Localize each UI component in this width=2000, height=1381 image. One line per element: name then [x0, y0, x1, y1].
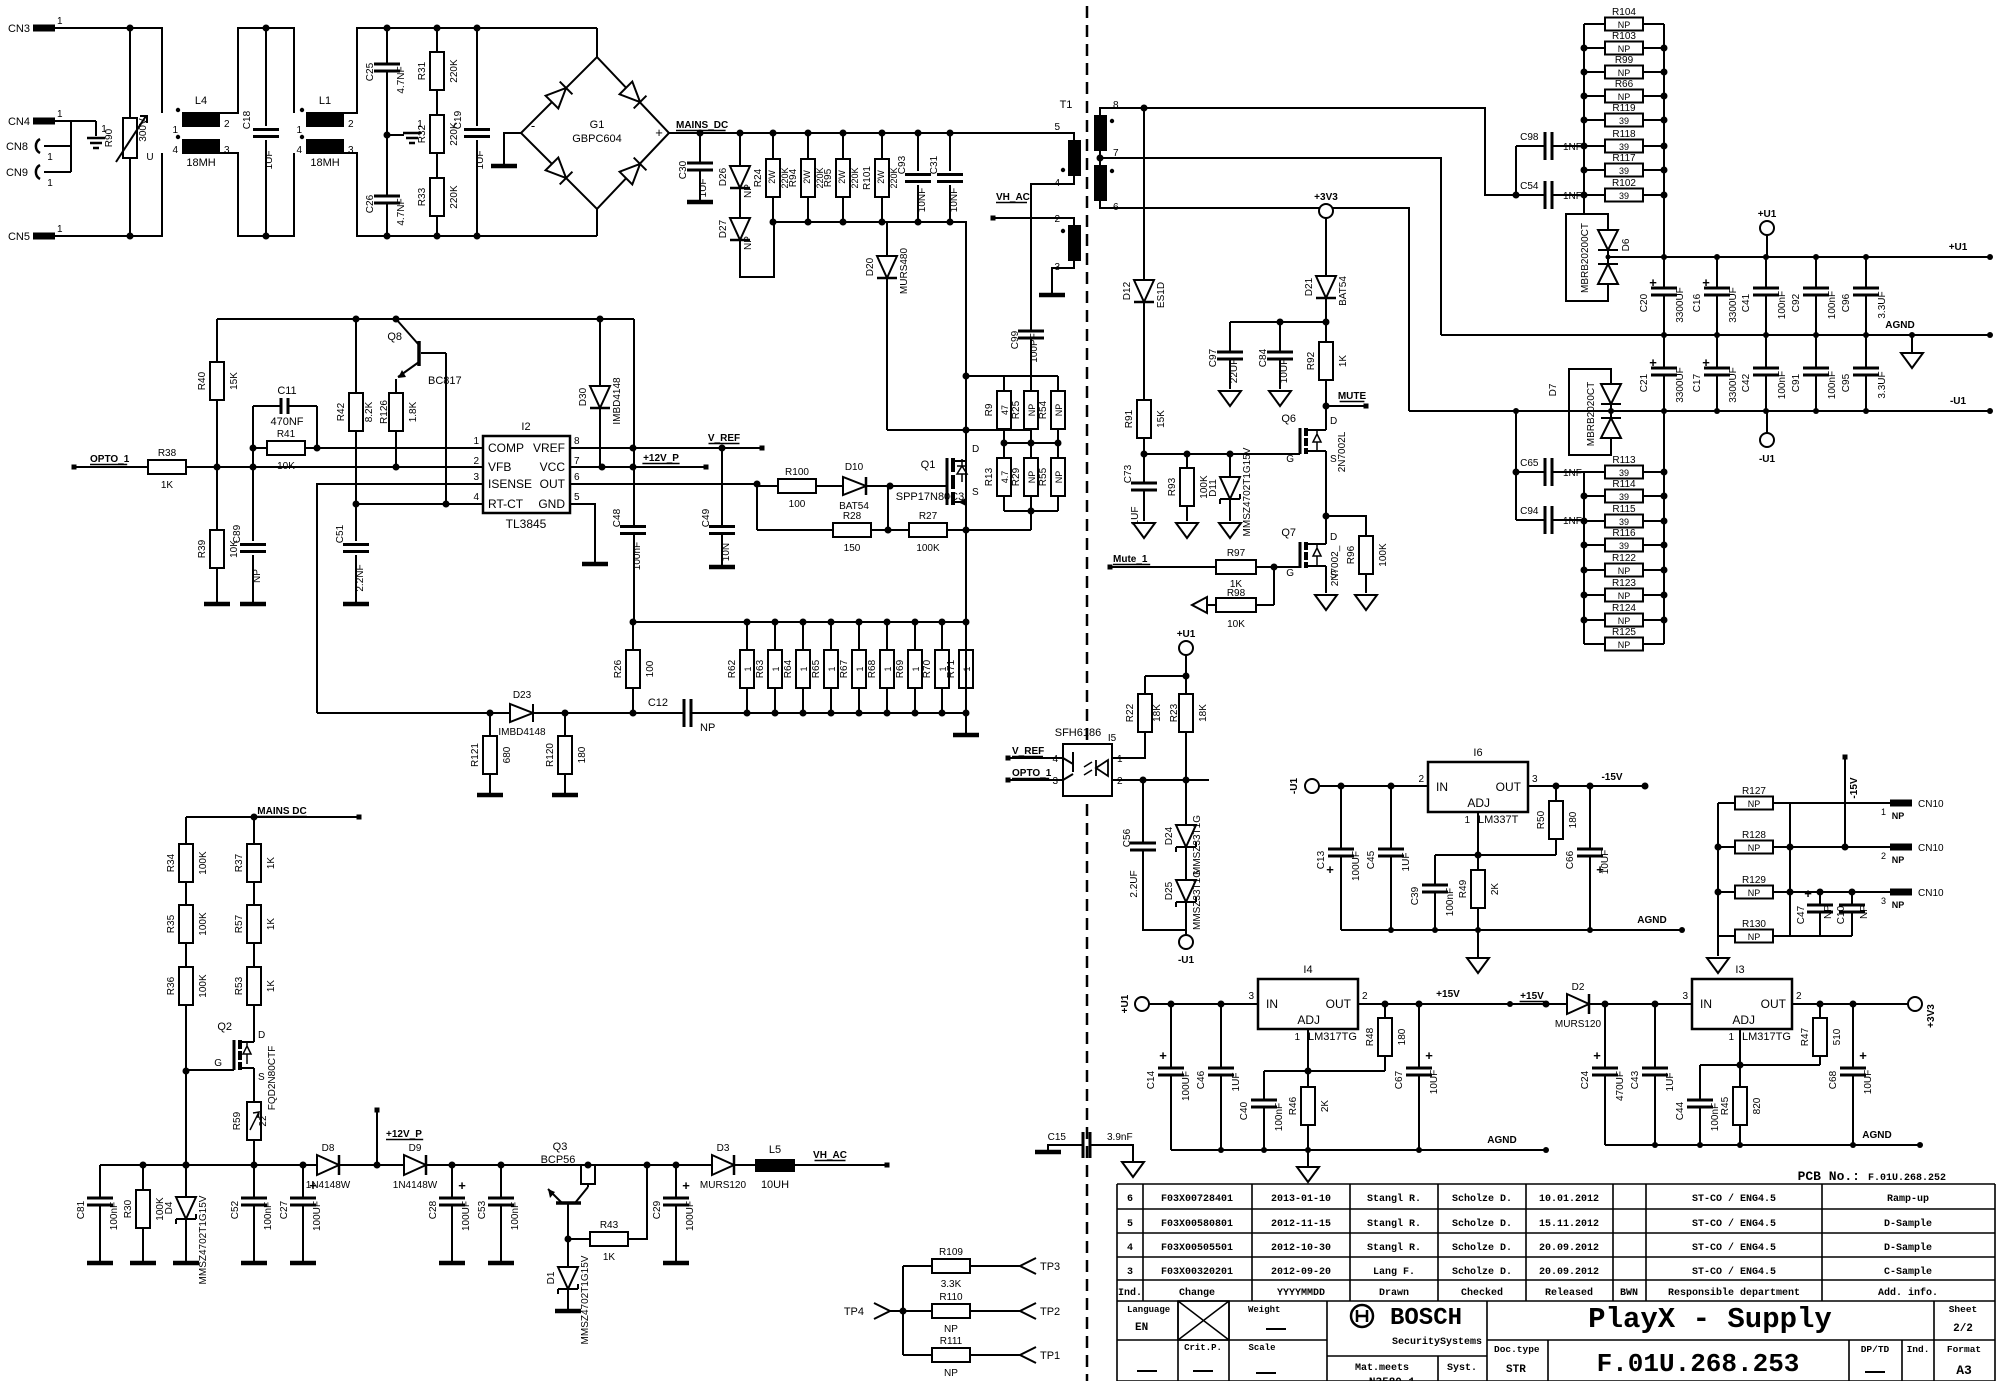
svg-text:C43: C43 — [1630, 1070, 1641, 1089]
ground R30 — [130, 1261, 156, 1266]
svg-text:MMSZ4702T1G15V: MMSZ4702T1G15V — [198, 1195, 209, 1284]
svg-text:2: 2 — [1362, 991, 1368, 1002]
svg-text:10K: 10K — [277, 461, 295, 472]
varistor R90 — [104, 28, 154, 236]
diode D20 — [865, 248, 910, 295]
svg-text:47: 47 — [1000, 405, 1010, 415]
wire opto pin1 to R22 — [1112, 730, 1145, 758]
junction dots gate cluster — [963, 373, 1062, 515]
svg-text:220K: 220K — [449, 59, 460, 83]
svg-text:ISENSE: ISENSE — [488, 477, 532, 491]
svg-text:+12V_P: +12V_P — [386, 1129, 422, 1140]
svg-text:R13: R13 — [984, 467, 995, 486]
svg-text:R125: R125 — [1612, 627, 1636, 638]
wire ladder2 right bus — [1663, 411, 1665, 644]
svg-text:+: + — [1702, 355, 1710, 370]
svg-text:R50: R50 — [1536, 810, 1547, 829]
svg-text:-: - — [531, 118, 535, 133]
svg-text:3: 3 — [224, 145, 230, 156]
svg-text:20.09.2012: 20.09.2012 — [1539, 1267, 1599, 1278]
resistor R101 — [862, 159, 899, 197]
svg-text:100K: 100K — [198, 851, 209, 875]
capacitor C47 — [1796, 886, 1834, 924]
resistor R70 — [922, 650, 949, 688]
capacitor C52 — [230, 1198, 274, 1230]
svg-text:1: 1 — [57, 224, 63, 235]
resistor R33 — [417, 178, 460, 216]
svg-text:MMSZ33T1G: MMSZ33T1G — [1192, 815, 1203, 875]
junction dots C97 C84 node — [1277, 319, 1330, 326]
svg-text:Q8: Q8 — [387, 331, 402, 343]
junction dots ladder2 — [1581, 469, 1668, 624]
resistor R29 — [1011, 458, 1038, 496]
chassis ground at bridge — [491, 164, 517, 169]
svg-text:NP: NP — [1748, 888, 1761, 898]
wire MAINS_DC rail — [669, 133, 1074, 140]
svg-text:+: + — [1804, 886, 1812, 901]
connector CN10 pin 2 — [1890, 844, 1912, 851]
terminal -U1 opto — [1179, 935, 1193, 949]
wire R62 leads — [746, 622, 748, 713]
wire ladder1 right bus — [1663, 24, 1665, 257]
svg-text:100UF: 100UF — [461, 1201, 472, 1231]
wire -U1 to I6 — [1319, 785, 1428, 787]
wire T1 pin3 ground — [1052, 261, 1074, 293]
resistor R71 — [946, 650, 973, 688]
wire C18 column — [265, 28, 267, 236]
junction dot I6 ADJ — [1475, 852, 1482, 859]
resistor R102 — [1605, 178, 1643, 202]
svg-text:680: 680 — [502, 746, 513, 763]
svg-text:2012-09-20: 2012-09-20 — [1271, 1267, 1331, 1278]
svg-text:R33: R33 — [417, 187, 428, 206]
svg-text:Scale: Scale — [1248, 1343, 1275, 1353]
svg-text:OUT: OUT — [1326, 997, 1352, 1011]
wire R42 branch — [355, 319, 357, 504]
svg-text:820: 820 — [1752, 1097, 1763, 1114]
svg-text:VCC: VCC — [540, 460, 566, 474]
wire ladder1 left bus — [1583, 24, 1585, 214]
transformer T1 — [1054, 99, 1119, 273]
svg-text:2W: 2W — [767, 170, 777, 184]
svg-text:F.01U.268.252: F.01U.268.252 — [1868, 1173, 1946, 1184]
ground D11 — [1219, 523, 1241, 538]
capacitor C15 — [1048, 1132, 1133, 1158]
svg-text:NP: NP — [1859, 905, 1870, 919]
svg-text:7: 7 — [574, 456, 580, 467]
junction dots bottom rail — [140, 1162, 680, 1169]
svg-text:R103: R103 — [1612, 31, 1636, 42]
svg-text:2W: 2W — [876, 170, 886, 184]
ground C15 right — [1122, 1162, 1144, 1177]
svg-text:S: S — [1330, 454, 1337, 465]
svg-text:NP: NP — [1892, 811, 1905, 821]
svg-text:39: 39 — [1619, 142, 1629, 152]
svg-text:+15V: +15V — [1436, 989, 1460, 1000]
connector CN9 — [6, 165, 53, 189]
test point TP1 arrow — [1020, 1347, 1036, 1363]
wire R30 branch — [142, 1165, 144, 1261]
svg-text:10K: 10K — [1227, 619, 1245, 630]
svg-text:2013-01-10: 2013-01-10 — [1271, 1194, 1331, 1205]
svg-text:+: + — [1859, 1048, 1867, 1063]
net label MAINS_DC — [676, 120, 728, 131]
net label MAINS_DC lower — [257, 806, 307, 817]
svg-text:R24: R24 — [753, 168, 764, 187]
wire R127 bus right — [1789, 803, 1791, 936]
svg-text:Stangl R.: Stangl R. — [1367, 1193, 1421, 1205]
svg-text:R55: R55 — [1038, 467, 1049, 486]
junction dots CN10 buses — [1715, 844, 1794, 896]
svg-text:+12V_P: +12V_P — [643, 453, 679, 464]
junction dots VREF line — [630, 445, 726, 452]
junction dots I4 input — [1168, 1001, 1225, 1008]
wire I2 GND pin — [570, 504, 595, 562]
svg-text:D: D — [1330, 532, 1337, 543]
svg-text:Crit.P.: Crit.P. — [1184, 1343, 1222, 1353]
svg-text:C97: C97 — [1208, 348, 1219, 367]
svg-text:STR: STR — [1506, 1364, 1526, 1376]
svg-text:NP: NP — [1892, 855, 1905, 865]
svg-text:Scholze D.: Scholze D. — [1452, 1218, 1512, 1230]
junction dots pin8 line — [1141, 105, 1520, 199]
svg-text:OUT: OUT — [540, 477, 566, 491]
junction dots C11 R41 — [250, 445, 321, 452]
wire AGND rail I4 — [1171, 1149, 1546, 1151]
svg-text:NP: NP — [1618, 591, 1631, 601]
ground C53 — [488, 1261, 514, 1266]
wire +15V to D2 — [1510, 1003, 1567, 1005]
wire -U1 rail — [1409, 410, 1990, 412]
capacitor C48 — [612, 508, 646, 570]
wire R70 leads — [941, 622, 943, 713]
junction dots control rail — [353, 316, 604, 323]
svg-text:A3: A3 — [1956, 1363, 1972, 1378]
svg-text:100nF: 100nF — [1777, 291, 1788, 319]
wire R127 leads — [1718, 802, 1790, 804]
capacitor C94 — [1520, 506, 1582, 534]
svg-text:Stangl R.: Stangl R. — [1367, 1218, 1421, 1230]
wire Q1 source to bank and ground — [965, 530, 967, 735]
wire I3 ADJ row — [1700, 1029, 1820, 1145]
svg-text:C46: C46 — [1196, 1070, 1207, 1089]
svg-text:1N4148W: 1N4148W — [306, 1180, 351, 1191]
svg-text:C54: C54 — [1520, 181, 1539, 192]
wire gate line Q6 — [1144, 453, 1300, 455]
svg-text:R130: R130 — [1742, 919, 1766, 930]
svg-text:MBRB20200CT: MBRB20200CT — [1580, 223, 1591, 293]
svg-text:BWN: BWN — [1620, 1288, 1638, 1299]
svg-text:+: + — [1702, 275, 1710, 290]
svg-text:I2: I2 — [521, 421, 530, 433]
svg-text:C47: C47 — [1796, 905, 1807, 924]
wire R115 leads — [1584, 520, 1664, 522]
capacitor C84 — [1258, 348, 1293, 383]
svg-text:22: 22 — [258, 1115, 269, 1127]
svg-text:R92: R92 — [1306, 351, 1317, 370]
net label +15V I3 — [1520, 991, 1545, 1002]
svg-text:D: D — [972, 444, 979, 455]
svg-text:R42: R42 — [336, 402, 347, 421]
ground C52 — [241, 1261, 267, 1266]
wire R104 leads — [1584, 23, 1664, 25]
ground R39 — [204, 602, 230, 607]
svg-text:ADJ: ADJ — [1732, 1013, 1755, 1027]
svg-text:1: 1 — [799, 666, 809, 671]
svg-text:C51: C51 — [335, 524, 346, 543]
junction dots gate line — [1141, 451, 1234, 458]
svg-text:LM317TG: LM317TG — [1742, 1031, 1791, 1043]
svg-text:150: 150 — [844, 543, 861, 554]
wire R127 bus left — [1717, 803, 1719, 956]
capacitor C81 — [76, 1198, 120, 1230]
svg-text:D21: D21 — [1304, 277, 1315, 296]
diode D10 BAT54 — [839, 462, 869, 512]
svg-text:R39: R39 — [197, 539, 208, 558]
svg-text:NP: NP — [743, 236, 754, 250]
svg-text:15K: 15K — [229, 372, 240, 390]
svg-text:10UF: 10UF — [1429, 1070, 1440, 1094]
capacitor C10 — [1836, 905, 1870, 924]
svg-text:C10: C10 — [1836, 905, 1847, 924]
resistor R28 — [833, 511, 871, 554]
svg-text:470UF: 470UF — [1615, 1071, 1626, 1101]
svg-text:Weight: Weight — [1248, 1305, 1280, 1315]
svg-text:R111: R111 — [940, 1336, 963, 1347]
optocoupler I5 SFH6186 — [1052, 727, 1123, 796]
junction dots snubber bus — [770, 219, 954, 226]
svg-text:1UF: 1UF — [1665, 1073, 1676, 1092]
test point TP2 arrow — [1020, 1303, 1036, 1319]
capacitor C45 — [1366, 849, 1412, 871]
svg-text:Q1: Q1 — [921, 459, 936, 471]
ground T1 pin3 — [1039, 293, 1065, 298]
svg-text:R69: R69 — [895, 659, 906, 678]
svg-text:C19: C19 — [453, 110, 464, 129]
svg-text:15K: 15K — [1156, 410, 1167, 428]
resistor R32 — [417, 115, 460, 153]
svg-text:D4: D4 — [164, 1201, 175, 1214]
svg-text:2W: 2W — [802, 170, 812, 184]
resistor R110 — [932, 1292, 970, 1335]
svg-text:18MH: 18MH — [310, 157, 339, 169]
junction dot mute node — [1323, 403, 1330, 410]
resistor R13 — [984, 458, 1011, 496]
ground R120 — [552, 793, 578, 798]
junction dots I4 out — [1382, 1001, 1550, 1008]
junction dots gate bias row — [885, 527, 970, 534]
svg-text:2.2UF: 2.2UF — [1129, 870, 1140, 897]
svg-text:3: 3 — [348, 145, 354, 156]
wire R117 leads — [1584, 169, 1664, 171]
resistor R98 — [1216, 588, 1256, 630]
svg-text:1K: 1K — [266, 980, 277, 993]
svg-text:39: 39 — [1619, 468, 1629, 478]
svg-text:220K: 220K — [850, 167, 860, 188]
ground C84 — [1269, 391, 1291, 406]
junction dots input rails — [127, 25, 481, 240]
transistor Q7 2N7002 — [1274, 516, 1341, 593]
wire D10 to Q1 gate — [866, 486, 890, 530]
svg-text:100UF: 100UF — [1351, 851, 1362, 881]
regulator I4 LM317TG — [1248, 964, 1368, 1043]
svg-text:R54: R54 — [1038, 400, 1049, 419]
svg-text:C39: C39 — [1410, 886, 1421, 905]
wire -15V drop CN10 — [1844, 757, 1846, 847]
svg-text:C-Sample: C-Sample — [1884, 1266, 1932, 1278]
svg-text:39: 39 — [1619, 541, 1629, 551]
svg-text:NP: NP — [1748, 932, 1761, 942]
svg-text:1: 1 — [1464, 815, 1470, 826]
wire C42 column — [1765, 335, 1767, 411]
net end OPTO_1 opto — [1006, 778, 1011, 783]
capacitor C18 — [242, 110, 279, 169]
svg-text:R109: R109 — [939, 1247, 963, 1258]
wire C91 column — [1815, 335, 1817, 411]
wire R95 leads — [842, 133, 844, 222]
ground C51 — [343, 602, 369, 607]
resistor R42 — [336, 393, 375, 431]
ground D4 — [173, 1261, 199, 1266]
resistor R62 — [727, 650, 754, 688]
title block bottom frame — [1117, 1301, 1995, 1381]
svg-text:1UF: 1UF — [1231, 1073, 1242, 1092]
terminal +U1 — [1760, 221, 1774, 235]
junction dots -U1 rail — [1513, 408, 1993, 414]
svg-text:R100: R100 — [785, 467, 809, 478]
svg-text:3300UF: 3300UF — [1728, 287, 1739, 323]
resistor R128 — [1735, 830, 1773, 854]
svg-text:1K: 1K — [266, 857, 277, 870]
resistor R36 — [166, 967, 209, 1005]
resistor R55 — [1038, 458, 1065, 496]
wire C49 branch — [721, 448, 723, 565]
svg-text:MMSZ4702T1G15V: MMSZ4702T1G15V — [580, 1255, 591, 1344]
resistor R117 — [1605, 153, 1643, 177]
ground source bank — [953, 733, 979, 738]
svg-text:D25: D25 — [1164, 881, 1175, 900]
svg-text:1K: 1K — [266, 918, 277, 931]
wire OPTO_1 line — [74, 466, 483, 468]
svg-text:100nF: 100nF — [109, 1202, 120, 1230]
wire C65 C94 feed — [1516, 411, 1584, 520]
wire C25 C26 column — [387, 28, 404, 236]
wire C67 branch — [1418, 1004, 1420, 1150]
wire R114 leads — [1584, 495, 1664, 497]
net end +12V_P — [704, 465, 709, 470]
svg-text:100K: 100K — [198, 912, 209, 936]
isolation barrier dashed line — [1086, 6, 1089, 1381]
resistor R100 — [778, 467, 816, 510]
svg-text:R65: R65 — [811, 659, 822, 678]
wire R59 to rail — [253, 1140, 255, 1165]
wire C21 column — [1663, 335, 1665, 411]
svg-text:180: 180 — [1397, 1028, 1408, 1045]
svg-text:C89: C89 — [232, 524, 243, 543]
svg-text:2: 2 — [1418, 774, 1424, 785]
svg-text:NP: NP — [1748, 799, 1761, 809]
junction dots bank buses — [487, 619, 970, 717]
svg-text:3.9nF: 3.9nF — [1107, 1132, 1133, 1143]
wire bank top bus — [633, 621, 966, 623]
junction dot OUT branch — [754, 481, 761, 488]
wire top mains rail — [55, 28, 597, 236]
junction dots I6 out — [1553, 783, 1649, 790]
wire R121 branch — [489, 713, 491, 793]
wire R101 leads — [881, 133, 883, 222]
svg-text:I4: I4 — [1303, 964, 1312, 976]
wire C28 branch — [451, 1165, 453, 1261]
diode D2 — [1555, 982, 1602, 1030]
svg-text:R22: R22 — [1125, 703, 1136, 722]
junction dot Q3 emitter — [565, 1236, 572, 1243]
wire I4 out line — [1358, 1003, 1546, 1005]
net label VH_AC lower — [813, 1150, 847, 1161]
svg-text:3.3UF: 3.3UF — [1877, 291, 1888, 318]
junction dots AGND rail upper — [1661, 332, 1993, 338]
svg-text:Responsible department: Responsible department — [1668, 1287, 1800, 1299]
svg-text:1K: 1K — [1338, 355, 1349, 368]
resistor R124 — [1605, 603, 1643, 627]
title block revision table — [1117, 1184, 1995, 1301]
wire D30 branch — [599, 319, 601, 467]
wire C56 branch — [1143, 780, 1186, 930]
svg-text:CN3: CN3 — [8, 23, 30, 35]
wire C15 left — [1048, 1145, 1083, 1150]
svg-text:+: + — [1649, 355, 1657, 370]
svg-text:R90: R90 — [104, 128, 115, 147]
connector CN4 — [33, 118, 55, 125]
svg-text:8.2K: 8.2K — [364, 401, 375, 422]
svg-text:+3V3: +3V3 — [1926, 1004, 1937, 1028]
svg-text:S: S — [972, 487, 979, 498]
wire C52 branch — [253, 1165, 255, 1261]
wire drain node horizontal — [887, 429, 1031, 431]
svg-text:C14: C14 — [1146, 1070, 1157, 1089]
svg-text:I6: I6 — [1473, 747, 1482, 759]
svg-text:L4: L4 — [195, 95, 207, 107]
svg-text:6: 6 — [1127, 1194, 1133, 1205]
junction dot MAINS_DC lower — [251, 814, 258, 821]
svg-text:NP: NP — [1618, 566, 1631, 576]
svg-text:Doc.type: Doc.type — [1494, 1344, 1540, 1355]
junction dots I3 out — [1817, 1001, 1857, 1008]
capacitor C91 — [1791, 368, 1838, 399]
wire R24 leads — [772, 133, 774, 222]
svg-text:D20: D20 — [865, 257, 876, 276]
svg-text:NP: NP — [944, 1324, 958, 1335]
resistor R57 — [234, 905, 277, 943]
svg-text:R57: R57 — [234, 914, 245, 933]
wire I4 gnd stub — [1307, 1150, 1309, 1166]
svg-text:D7: D7 — [1548, 383, 1559, 396]
junction dot I4 ADJ — [1305, 1068, 1312, 1075]
wire -U1 terminal stub — [1766, 411, 1768, 433]
junction dots ladder1 — [1581, 45, 1668, 199]
junction dots MAINS_DC rail — [697, 130, 954, 137]
svg-text:R124: R124 — [1612, 603, 1636, 614]
svg-text:R113: R113 — [1612, 455, 1636, 466]
wire R37 column — [253, 817, 255, 1038]
wire R96 branch — [1326, 516, 1366, 593]
wire R102 leads — [1584, 194, 1664, 196]
ground C28 — [439, 1261, 465, 1266]
wire OUT to gate row — [570, 484, 778, 530]
svg-text:C26: C26 — [365, 194, 376, 213]
net end OPTO_1 — [72, 465, 77, 470]
svg-text:+U1: +U1 — [1177, 629, 1196, 640]
svg-text:1UF: 1UF — [698, 179, 709, 198]
